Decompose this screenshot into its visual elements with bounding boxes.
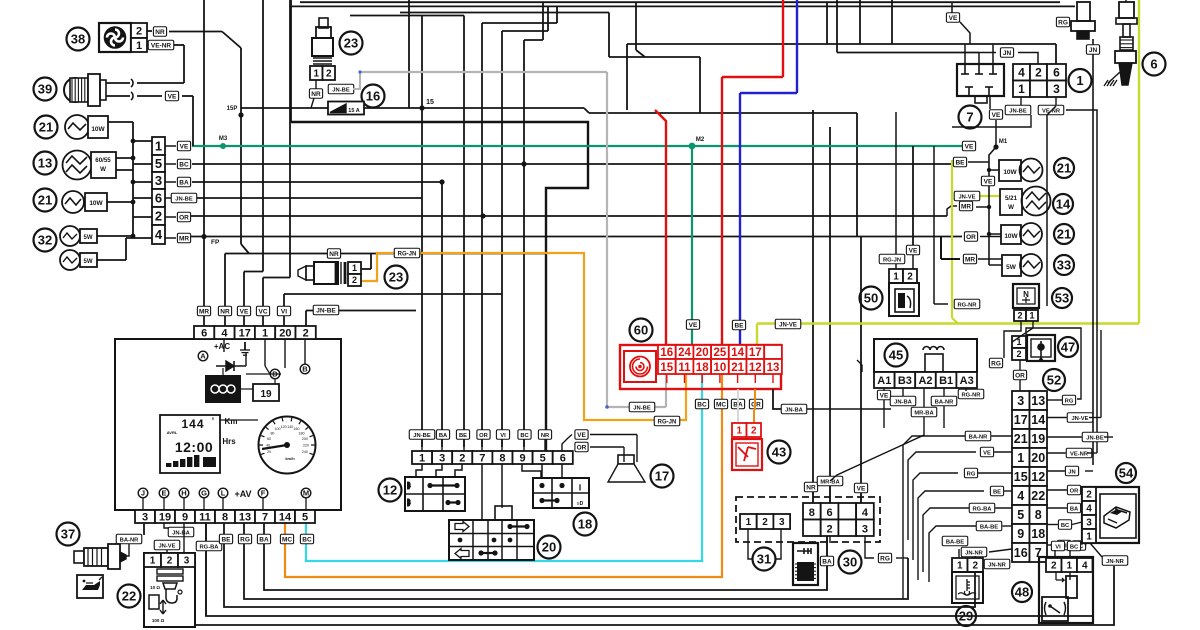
svg-text:15 A: 15 A (348, 108, 359, 114)
svg-text:17: 17 (239, 327, 251, 339)
svg-text:MR-BA: MR-BA (914, 411, 934, 417)
svg-text:47: 47 (1061, 340, 1075, 355)
svg-text:31: 31 (757, 552, 771, 567)
svg-text:8: 8 (1035, 508, 1042, 522)
svg-text:20: 20 (1031, 451, 1045, 465)
svg-text:220: 220 (303, 444, 309, 448)
svg-text:6: 6 (201, 327, 207, 339)
svg-text:120: 120 (281, 425, 287, 429)
svg-text:OR: OR (577, 445, 587, 452)
svg-text:12:00: 12:00 (175, 439, 213, 455)
svg-text:13: 13 (767, 362, 780, 374)
svg-text:5: 5 (302, 511, 308, 523)
svg-text:JN-BE: JN-BE (175, 197, 193, 203)
svg-text:RG-BA: RG-BA (200, 545, 220, 551)
svg-text:1: 1 (1029, 311, 1034, 321)
svg-text:RG-BA: RG-BA (973, 507, 993, 513)
svg-text:MR: MR (961, 204, 971, 211)
svg-text:14: 14 (279, 511, 292, 523)
svg-text:29: 29 (959, 609, 973, 624)
svg-text:3: 3 (155, 173, 162, 188)
svg-text:MR: MR (179, 236, 189, 243)
svg-text:200: 200 (302, 437, 308, 441)
svg-text:2: 2 (907, 272, 913, 283)
svg-text:16: 16 (660, 347, 673, 359)
svg-text:6: 6 (155, 191, 162, 206)
svg-text:BA-NR: BA-NR (969, 435, 988, 441)
svg-text:JN-BE: JN-BE (413, 433, 431, 439)
svg-text:km/h: km/h (285, 456, 295, 461)
svg-text:8: 8 (499, 452, 505, 464)
svg-text:RG: RG (1065, 399, 1074, 405)
svg-text:10W: 10W (91, 126, 105, 133)
svg-text:2: 2 (1017, 311, 1022, 321)
svg-text:OR: OR (1070, 489, 1080, 495)
svg-text:3: 3 (184, 556, 190, 567)
svg-text:4: 4 (1018, 66, 1025, 80)
svg-text:3: 3 (779, 517, 785, 528)
svg-text:JN-NR: JN-NR (965, 551, 984, 557)
svg-text:1: 1 (746, 517, 752, 528)
svg-text:BC: BC (1070, 545, 1079, 551)
svg-text:9: 9 (1017, 527, 1024, 541)
svg-text:5W: 5W (84, 259, 93, 265)
svg-text:JN-NR: JN-NR (1106, 559, 1125, 565)
svg-text:37: 37 (61, 527, 75, 542)
svg-text:1: 1 (957, 561, 963, 572)
svg-text:J: J (141, 489, 145, 498)
svg-text:BA-NR: BA-NR (120, 538, 139, 544)
svg-text:20: 20 (279, 327, 291, 339)
svg-text:21: 21 (38, 193, 52, 208)
svg-text:BE: BE (221, 537, 231, 544)
svg-text:23: 23 (344, 36, 358, 51)
svg-text:JN-BE: JN-BE (316, 308, 336, 315)
svg-text:30: 30 (843, 555, 857, 570)
svg-text:JN-BE: JN-BE (332, 88, 350, 94)
svg-text:RG: RG (240, 537, 250, 544)
svg-text:16: 16 (366, 89, 380, 104)
svg-text:+AC: +AC (214, 342, 230, 351)
svg-text:2: 2 (972, 561, 978, 572)
svg-text:2: 2 (303, 327, 309, 339)
svg-text:21: 21 (1057, 161, 1071, 176)
svg-text:3: 3 (1017, 394, 1024, 408)
svg-text:❙: ❙ (577, 484, 582, 491)
svg-text:VI: VI (500, 433, 506, 439)
svg-text:OR: OR (1015, 373, 1025, 380)
svg-text:60/55: 60/55 (95, 157, 111, 164)
svg-text:9: 9 (182, 511, 188, 523)
svg-text:33: 33 (1057, 258, 1071, 273)
svg-text:M2: M2 (696, 137, 705, 143)
svg-text:19: 19 (1031, 432, 1045, 446)
svg-text:15P: 15P (227, 106, 238, 112)
svg-text:4: 4 (155, 227, 163, 242)
svg-text:12: 12 (1031, 470, 1045, 484)
svg-text:5/21: 5/21 (1005, 195, 1018, 202)
svg-text:1: 1 (1066, 561, 1072, 572)
svg-text:10 Ω: 10 Ω (150, 585, 160, 590)
svg-text:17: 17 (749, 347, 762, 359)
svg-text:A: A (200, 352, 206, 361)
svg-text:BA: BA (259, 537, 269, 544)
svg-text:BA-NR: BA-NR (935, 400, 954, 406)
svg-text:7: 7 (262, 511, 268, 523)
svg-text:5: 5 (155, 156, 162, 171)
svg-text:OR: OR (966, 234, 976, 241)
svg-text:32: 32 (38, 233, 52, 248)
svg-text:A1: A1 (877, 375, 891, 387)
svg-text:24: 24 (678, 347, 691, 359)
svg-text:FP: FP (211, 239, 220, 246)
svg-text:12: 12 (749, 362, 762, 374)
svg-text:19: 19 (260, 389, 272, 400)
svg-text:1: 1 (352, 263, 357, 273)
svg-text:13: 13 (38, 156, 52, 171)
svg-text:52: 52 (1047, 373, 1061, 388)
svg-text:AVRL: AVRL (167, 430, 178, 435)
svg-text:6: 6 (560, 452, 566, 464)
svg-text:G: G (201, 489, 207, 498)
svg-text:8: 8 (809, 507, 815, 519)
svg-text:22: 22 (122, 589, 136, 604)
svg-text:21: 21 (1057, 227, 1071, 242)
svg-text:144: 144 (181, 417, 204, 431)
svg-text:4: 4 (1086, 504, 1092, 515)
svg-text:17: 17 (1014, 413, 1028, 427)
svg-text:2: 2 (751, 426, 757, 437)
svg-text:VE: VE (880, 393, 889, 400)
svg-text:VC: VC (258, 309, 267, 316)
svg-text:140: 140 (287, 425, 293, 429)
svg-text:A2: A2 (918, 375, 932, 387)
svg-text:≡D: ≡D (577, 501, 584, 507)
svg-text:JN-BA: JN-BA (785, 408, 804, 414)
svg-text:BC: BC (697, 402, 707, 409)
svg-text:45: 45 (889, 348, 903, 363)
svg-text:38: 38 (71, 32, 85, 47)
svg-text:VE: VE (983, 451, 991, 457)
svg-text:2: 2 (167, 556, 173, 567)
svg-text:MR: MR (965, 257, 975, 264)
svg-text:1: 1 (1017, 451, 1024, 465)
svg-text:100: 100 (275, 427, 281, 431)
svg-text:23: 23 (389, 270, 403, 285)
svg-text:JN-BE: JN-BE (1009, 109, 1027, 115)
svg-text:2: 2 (1016, 349, 1021, 359)
svg-text:1: 1 (1086, 532, 1092, 543)
svg-text:2: 2 (352, 275, 357, 285)
svg-text:18: 18 (1031, 527, 1045, 541)
svg-text:VE: VE (240, 309, 249, 316)
svg-text:6: 6 (1053, 66, 1060, 80)
svg-text:54: 54 (1119, 466, 1134, 481)
svg-text:1: 1 (136, 40, 142, 52)
svg-text:M1: M1 (999, 139, 1008, 145)
svg-text:100 Ω: 100 Ω (152, 618, 165, 623)
svg-text:4: 4 (221, 327, 228, 339)
svg-text:BA: BA (439, 433, 448, 439)
svg-text:4: 4 (862, 507, 869, 519)
svg-text:5: 5 (1017, 508, 1024, 522)
svg-text:OR: OR (479, 433, 489, 439)
svg-text:VE: VE (168, 94, 177, 101)
svg-text:18: 18 (578, 517, 592, 532)
svg-text:H: H (181, 489, 186, 498)
svg-text:2: 2 (136, 25, 142, 37)
svg-text:Hrs: Hrs (222, 437, 236, 446)
svg-text:B: B (302, 365, 308, 374)
svg-text:VI: VI (1055, 545, 1061, 551)
svg-text:14: 14 (731, 347, 744, 359)
svg-text:16: 16 (1014, 546, 1028, 560)
svg-text:BC: BC (179, 162, 189, 169)
svg-text:VE: VE (857, 486, 866, 493)
svg-text:180: 180 (299, 431, 305, 435)
svg-text:NR: NR (155, 29, 165, 36)
svg-text:BA: BA (1070, 507, 1079, 513)
svg-text:1: 1 (736, 426, 742, 437)
svg-text:9: 9 (519, 452, 525, 464)
svg-text:JN-VE: JN-VE (958, 195, 975, 201)
svg-text:JN-VE: JN-VE (158, 544, 175, 550)
svg-text:VE: VE (992, 112, 1001, 119)
svg-text:6: 6 (1150, 57, 1157, 72)
svg-text:NR: NR (329, 251, 339, 258)
svg-text:19: 19 (159, 511, 171, 523)
svg-text:VE: VE (965, 144, 974, 151)
svg-text:240: 240 (302, 450, 308, 454)
svg-text:BC: BC (1061, 523, 1070, 529)
svg-text:RG: RG (991, 361, 1001, 368)
svg-text:VI: VI (281, 309, 287, 316)
svg-text:B1: B1 (939, 375, 953, 387)
svg-text:BA: BA (822, 559, 832, 566)
svg-text:W: W (100, 166, 106, 173)
svg-text:BC: BC (520, 433, 529, 439)
svg-text:RG: RG (880, 556, 890, 563)
svg-text:': ' (212, 416, 214, 426)
svg-text:7: 7 (479, 452, 485, 464)
svg-text:2: 2 (1051, 561, 1057, 572)
svg-text:60: 60 (634, 323, 648, 338)
svg-text:MC: MC (282, 537, 292, 544)
svg-text:14: 14 (1031, 413, 1045, 427)
svg-text:F: F (261, 489, 266, 498)
svg-text:JN-BE: JN-BE (633, 406, 651, 412)
svg-text:53: 53 (1055, 291, 1069, 306)
svg-text:11: 11 (199, 511, 211, 523)
svg-text:VE: VE (949, 15, 958, 22)
svg-text:BE: BE (993, 490, 1001, 496)
svg-text:VE: VE (180, 144, 189, 151)
svg-text:10W: 10W (89, 200, 103, 207)
svg-text:21: 21 (731, 362, 744, 374)
svg-text:VE-NR: VE-NR (1070, 452, 1089, 458)
svg-text:NR: NR (311, 91, 321, 98)
svg-text:2: 2 (762, 517, 768, 528)
svg-text:60: 60 (267, 437, 271, 441)
svg-text:JN: JN (1068, 470, 1075, 476)
svg-text:1: 1 (419, 452, 425, 464)
svg-text:2: 2 (326, 69, 332, 80)
svg-text:L: L (221, 489, 226, 498)
svg-text:6: 6 (826, 507, 832, 519)
svg-text:1: 1 (313, 69, 319, 80)
svg-text:5W: 5W (84, 235, 93, 241)
svg-text:A3: A3 (960, 375, 974, 387)
svg-text:50: 50 (864, 291, 878, 306)
svg-text:W: W (1008, 204, 1014, 211)
svg-text:2: 2 (459, 452, 465, 464)
svg-text:BA-BE: BA-BE (980, 525, 998, 531)
svg-text:21: 21 (1014, 432, 1028, 446)
svg-text:2: 2 (826, 524, 832, 536)
svg-text:17: 17 (655, 469, 669, 484)
svg-text:JN-VE: JN-VE (1071, 416, 1088, 422)
svg-text:10W: 10W (1004, 233, 1018, 240)
svg-text:E: E (161, 489, 166, 498)
svg-text:JN-VE: JN-VE (779, 323, 797, 329)
svg-text:MC: MC (716, 402, 726, 409)
svg-text:JN-BE: JN-BE (1086, 436, 1104, 442)
svg-text:3: 3 (862, 524, 868, 536)
svg-text:39: 39 (38, 82, 52, 97)
svg-text:RG-JN: RG-JN (883, 258, 901, 264)
svg-text:NR: NR (541, 433, 550, 439)
svg-text:JN-NR: JN-NR (988, 563, 1007, 569)
svg-text:3: 3 (142, 511, 148, 523)
svg-text:8: 8 (222, 511, 228, 523)
svg-text:4: 4 (1082, 561, 1088, 572)
svg-text:15: 15 (426, 99, 434, 106)
svg-text:10W: 10W (1003, 169, 1017, 176)
svg-text:MR: MR (199, 309, 209, 316)
svg-text:12: 12 (383, 483, 397, 498)
svg-text:BA: BA (179, 180, 189, 187)
svg-text:11: 11 (678, 362, 691, 374)
svg-text:B3: B3 (898, 375, 912, 387)
svg-text:43: 43 (772, 445, 786, 460)
svg-text:BC: BC (302, 537, 312, 544)
svg-text:Km: Km (225, 417, 238, 426)
svg-text:RG: RG (1058, 20, 1068, 27)
svg-text:JN-BA: JN-BA (894, 400, 913, 406)
svg-text:VE: VE (909, 248, 918, 255)
svg-text:3: 3 (439, 452, 445, 464)
svg-text:5W: 5W (1006, 264, 1017, 271)
svg-text:BE: BE (955, 160, 965, 167)
svg-text:5: 5 (540, 452, 546, 464)
svg-text:JN: JN (1089, 47, 1098, 54)
svg-text:VE: VE (689, 322, 698, 329)
svg-text:1: 1 (262, 327, 268, 339)
svg-text:20: 20 (542, 540, 556, 555)
svg-text:M3: M3 (219, 136, 228, 142)
svg-text:NR: NR (220, 309, 230, 316)
svg-text:JN: JN (1003, 50, 1012, 57)
svg-text:1: 1 (155, 139, 162, 154)
svg-text:M: M (303, 489, 309, 498)
svg-text:22: 22 (1031, 489, 1045, 503)
svg-text:7: 7 (966, 110, 973, 125)
svg-text:15: 15 (1014, 470, 1028, 484)
svg-text:OR: OR (751, 402, 761, 409)
svg-text:1: 1 (1018, 82, 1025, 96)
svg-text:+AV: +AV (234, 489, 251, 499)
svg-text:4: 4 (1017, 489, 1024, 503)
svg-text:1: 1 (150, 556, 156, 567)
svg-text:14: 14 (1056, 197, 1071, 212)
svg-text:BA-BE: BA-BE (946, 540, 964, 546)
svg-text:NR: NR (806, 485, 816, 492)
svg-text:13: 13 (239, 511, 251, 523)
svg-text:2: 2 (1035, 66, 1042, 80)
svg-text:RG: RG (967, 472, 976, 478)
svg-text:1: 1 (893, 272, 899, 283)
svg-text:21: 21 (39, 120, 53, 135)
svg-text:VE: VE (984, 179, 993, 186)
svg-text:80: 80 (270, 431, 274, 435)
svg-text:15: 15 (660, 362, 673, 374)
svg-text:RG-JN: RG-JN (398, 252, 417, 258)
svg-text:JN-BA: JN-BA (172, 531, 191, 537)
svg-text:2: 2 (155, 209, 162, 224)
svg-text:RG-JN: RG-JN (658, 420, 677, 426)
svg-text:20: 20 (267, 450, 271, 454)
svg-text:18: 18 (696, 362, 709, 374)
svg-text:13: 13 (1031, 394, 1045, 408)
svg-text:VE-NR: VE-NR (151, 43, 172, 50)
svg-text:BE: BE (734, 323, 744, 330)
svg-text:1: 1 (1076, 73, 1083, 88)
svg-text:20: 20 (696, 347, 709, 359)
svg-text:10: 10 (714, 362, 727, 374)
svg-text:OR: OR (179, 215, 189, 222)
svg-text:BE: BE (459, 433, 467, 439)
svg-text:RG-NR: RG-NR (962, 393, 982, 399)
svg-text:3: 3 (1053, 82, 1060, 96)
svg-text:2: 2 (1086, 490, 1092, 501)
svg-text:RG-NR: RG-NR (958, 303, 978, 309)
svg-text:3: 3 (1086, 518, 1092, 529)
svg-text:48: 48 (1015, 585, 1029, 600)
svg-text:VE: VE (577, 432, 586, 439)
svg-text:25: 25 (714, 347, 727, 359)
